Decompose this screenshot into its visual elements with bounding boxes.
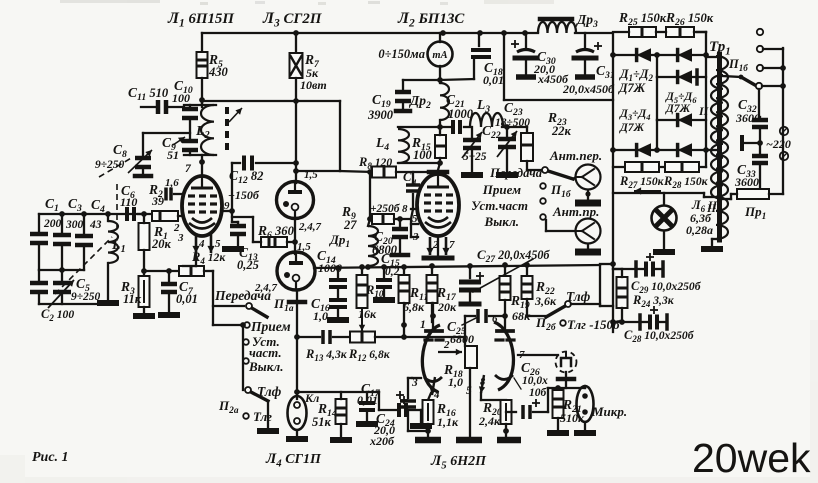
switch П2б arm [546, 305, 567, 317]
node d1 row [610, 52, 616, 58]
svg-text:0÷150ма: 0÷150ма [378, 47, 425, 61]
svg-text:10,0х: 10,0х [522, 375, 548, 387]
wire R10 stub [361, 267, 363, 275]
svg-text:C23: C23 [504, 100, 523, 118]
wire C20 stub [399, 219, 401, 226]
wire winding II bottom tap [706, 149, 716, 151]
wire top B+ bus [202, 32, 538, 34]
grid arrow R18 [438, 351, 462, 353]
wire C6 right [138, 213, 152, 215]
svg-text:0,01: 0,01 [176, 292, 198, 306]
wire to R8 [340, 171, 372, 172]
capacitor C12 [242, 156, 246, 171]
svg-text:39: 39 [151, 194, 164, 208]
bar jack [558, 377, 574, 382]
wire winding II top [706, 56, 716, 58]
wire C12 left [232, 162, 240, 164]
diode Д1 [637, 48, 651, 62]
wire Л3 bottom [294, 218, 296, 254]
svg-text:+250б: +250б [370, 203, 401, 215]
capacitor C15 [376, 278, 392, 282]
wire тлф right [571, 303, 600, 305]
svg-text:Д3÷Д4: Д3÷Д4 [619, 108, 651, 122]
svg-text:Л4 СГ1П: Л4 СГ1П [265, 451, 322, 469]
inductor Др1 [368, 226, 378, 266]
svg-text:Рис. 1: Рис. 1 [32, 450, 69, 465]
svg-text:Микр.: Микр. [591, 404, 627, 419]
wire C29 stub2 [636, 268, 643, 270]
wire ant пр stub [545, 220, 547, 231]
wire C20 bottom [399, 240, 401, 253]
wire Л2 cathode [437, 236, 439, 258]
resistor R18 [465, 346, 477, 368]
wire diode row2 [657, 76, 706, 78]
capacitor C2 [30, 281, 48, 286]
svg-text:20к: 20к [151, 237, 172, 251]
inductor Др2 [440, 83, 449, 120]
capacitor C29 electrolytic [644, 262, 648, 277]
switch common rail [242, 325, 244, 390]
svg-text:R12 6,8к: R12 6,8к [348, 347, 391, 363]
ground C17 [356, 421, 378, 427]
ground C19 [396, 109, 410, 114]
capacitor C13 [230, 224, 246, 229]
svg-text:C4: C4 [91, 197, 105, 215]
node R9 left [367, 216, 373, 222]
switch contact tap2 [757, 46, 763, 52]
wire R11 stub [403, 267, 405, 275]
wire anode row [398, 126, 450, 128]
svg-text:C11 510: C11 510 [128, 85, 169, 103]
node R22 rail [524, 262, 530, 268]
wire Сн bottom [412, 194, 414, 209]
node R5 bottom [199, 97, 205, 103]
ground Микр [574, 430, 596, 436]
wire fuse right [769, 193, 783, 195]
svg-text:C29 10,0х250б: C29 10,0х250б [631, 279, 702, 295]
wire R25-R26 [656, 31, 666, 33]
wire R13-R12 [333, 336, 350, 338]
cathode arrow 5 [210, 233, 213, 253]
capacitor C27 electrolytic [459, 280, 481, 285]
svg-text:2,4,7: 2,4,7 [298, 221, 322, 233]
wire C31 stub [584, 33, 586, 48]
node R10 rail [359, 264, 365, 270]
wire contact4 down [758, 89, 760, 117]
node R1 top [141, 211, 147, 217]
capacitor C4 [75, 234, 93, 239]
svg-text:9÷250: 9÷250 [71, 291, 101, 303]
svg-text:Пр1: Пр1 [744, 204, 766, 222]
wire tap bar [744, 142, 760, 144]
wire bus to R5 [201, 33, 203, 52]
svg-text:Д7Ж: Д7Ж [618, 81, 646, 95]
tube Л1 6П15П [182, 176, 222, 236]
wire Микр bottom [584, 422, 586, 430]
svg-text:П2а: П2а [218, 398, 239, 416]
wire R20 bottom [505, 424, 507, 436]
svg-text:R26 150к: R26 150к [665, 10, 714, 28]
svg-text:Л1 6П15П: Л1 6П15П [167, 10, 234, 30]
wire C9 bottom [189, 153, 191, 155]
svg-text:II: II [698, 104, 710, 118]
wire R23 top [526, 127, 528, 133]
resistor R21 [553, 390, 564, 418]
wire C1 bottom [38, 246, 40, 270]
wire C26 right [533, 411, 548, 413]
terminal bar C29 right [661, 262, 665, 276]
svg-text:C27 20,0х450б: C27 20,0х450б [477, 247, 550, 265]
wire row3-row4 [656, 120, 658, 150]
capacitor C22 variable [463, 138, 481, 143]
node R11 join [401, 334, 407, 340]
wire R2 to tube [178, 215, 183, 217]
node cross R7 [293, 98, 299, 104]
svg-text:R8 120: R8 120 [358, 155, 392, 171]
wire ant пр gnd [587, 244, 589, 249]
wire R15 top stub [439, 129, 441, 135]
resistor R16 [423, 400, 434, 424]
svg-text:9÷250: 9÷250 [95, 159, 125, 171]
pointer C27 [473, 259, 533, 292]
svg-text:20wek: 20wek [692, 435, 811, 481]
resistor R11 [399, 275, 410, 303]
wire C3 bottom [61, 247, 63, 270]
resistor R26 [666, 27, 694, 37]
switch contact прием [540, 183, 546, 189]
wire C3 stub [61, 214, 63, 232]
wire C18 stub [478, 33, 480, 46]
wire B+ feed vertical [503, 33, 505, 100]
svg-text:Др1: Др1 [329, 232, 350, 250]
wire Л4 bottom [296, 290, 298, 302]
ground C30 [516, 74, 536, 80]
wire R24 bottom [621, 308, 623, 322]
ground C13 [222, 246, 244, 252]
ground R20 [497, 437, 521, 444]
wire C24 right [409, 409, 421, 411]
ground R21 [547, 430, 569, 436]
svg-text:300: 300 [65, 219, 84, 231]
wire tap2 [763, 48, 783, 50]
capacitor C25 [476, 309, 480, 323]
wire mains rail [782, 48, 784, 194]
wire R19 bottom [504, 300, 506, 316]
wire screen corner down [339, 101, 341, 171]
capacitor C5 variable [53, 281, 71, 286]
switch П1б arm antenna [545, 170, 573, 179]
inductor Др3 [538, 22, 576, 33]
wire tap3 [763, 67, 783, 69]
wire прием tap [213, 324, 243, 326]
wire ant пер gnd [587, 190, 589, 201]
svg-text:5: 5 [215, 238, 221, 250]
svg-text:Тлг: Тлг [253, 409, 272, 424]
resistor R9 [372, 214, 394, 224]
svg-text:100: 100 [413, 148, 433, 162]
inductor L1 [108, 221, 118, 263]
wire C7 bottom [168, 295, 170, 312]
wire R14 bottom [340, 424, 342, 437]
wire anode Л3 tap [296, 170, 340, 172]
node C15 rail [381, 264, 387, 270]
antenna jack пер [576, 165, 601, 190]
svg-text:C3: C3 [68, 196, 82, 214]
svg-text:430: 430 [208, 65, 229, 79]
wire bottom rail2 [39, 303, 108, 305]
wire C15 bottom [383, 290, 385, 297]
diode Д2 [678, 48, 692, 62]
wire C22 bottom [471, 151, 473, 172]
resistor R7 [290, 53, 303, 78]
wire to top cap [438, 163, 440, 170]
lamp Л6 [652, 206, 677, 231]
node C28 [610, 319, 616, 325]
svg-text:16к: 16к [358, 307, 377, 321]
svg-text:20к: 20к [437, 300, 457, 314]
svg-text:3600: 3600 [734, 175, 759, 189]
wire C27 bottom [469, 293, 471, 302]
wire C11 right [169, 106, 184, 108]
svg-text:R25 150к: R25 150к [618, 10, 667, 28]
capacitor C26 ecap [521, 405, 525, 419]
capacitor C31 electrolytic [576, 50, 594, 53]
wire meter down [439, 66, 441, 80]
wire Др1 bottom [367, 266, 369, 268]
wire R27 row [613, 166, 706, 168]
wire R21 bottom [557, 418, 559, 430]
wire pin5 R20 [480, 393, 482, 400]
resistor R27 [625, 162, 659, 172]
wire R19 stub [504, 265, 506, 276]
wire C4 bottom [83, 248, 85, 270]
svg-text:510к: 510к [560, 411, 585, 425]
wire R1 top stub [143, 214, 145, 223]
wire C5 bottom [61, 295, 63, 304]
wire C1 stub [38, 214, 40, 231]
wire R5 to node [201, 78, 203, 107]
switch contact tap4 [756, 83, 762, 89]
svg-text:18÷500: 18÷500 [495, 117, 530, 129]
ground C15 [373, 297, 395, 303]
wire L1 bottom [107, 263, 109, 300]
capacitor C32 [752, 118, 768, 123]
svg-text:Прием: Прием [482, 182, 521, 197]
resistor R6 [261, 237, 287, 247]
wire pin9 connect [231, 212, 233, 214]
node C20 top [397, 216, 403, 222]
ground R16 [415, 437, 441, 444]
inductor L4 [398, 129, 409, 163]
svg-text:10б: 10б [529, 387, 548, 399]
resistor R17 [427, 275, 438, 303]
wire C30 bottom [525, 60, 527, 74]
svg-text:8: 8 [402, 203, 408, 215]
gang dashed diag2 [99, 157, 133, 177]
cathode arc left [424, 377, 442, 382]
wire R23 bottom [526, 161, 528, 170]
wire R7 down [295, 78, 297, 183]
diode Д6 [678, 113, 692, 127]
wire C22 stub [471, 127, 473, 137]
wire C28 row [613, 321, 640, 323]
gang dashed vertical [116, 184, 118, 228]
arrow C5 variable [48, 280, 74, 308]
wire winding I top [723, 76, 741, 77]
wire C29 row [613, 268, 636, 270]
node out [555, 385, 561, 391]
svg-text:III: III [706, 203, 721, 215]
wire C13 bottom [237, 237, 239, 246]
svg-text:43: 43 [89, 219, 102, 231]
wire R11 bottom [403, 303, 405, 337]
svg-text:~220: ~220 [766, 137, 791, 151]
wire C11 left stub [141, 106, 156, 108]
terminal bar C28 left [638, 315, 642, 329]
wire C26 left [506, 411, 516, 413]
svg-text:Прием: Прием [250, 319, 291, 334]
capacitor C17 [359, 401, 375, 405]
wire pin3 stub [410, 219, 412, 237]
wire R15 bottom stub [439, 158, 441, 163]
grid dash right [496, 338, 503, 341]
capacitor C19 [395, 90, 411, 95]
wire diode row3 [657, 119, 706, 121]
resistor R4 [179, 266, 204, 276]
wire C14-C16 [337, 290, 339, 297]
node junction R7 top [293, 30, 299, 36]
resistor R14 [336, 399, 347, 424]
capacitor C8 variable [135, 156, 151, 161]
wire cathode down [195, 252, 197, 266]
svg-text:7: 7 [185, 163, 192, 175]
wire C8 top [143, 132, 190, 134]
svg-text:4: 4 [198, 238, 205, 250]
wire meter to C19 [403, 79, 440, 81]
wire R9 right [394, 218, 411, 220]
svg-text:1,6: 1,6 [165, 177, 179, 189]
node C3 top [59, 211, 65, 217]
ground C24 [410, 423, 432, 429]
node кл row [294, 334, 300, 340]
wire rail corner [599, 265, 601, 306]
ground П2а [257, 428, 279, 434]
svg-text:3: 3 [412, 231, 419, 243]
wire R4 right [204, 270, 213, 272]
wire C2 stub [38, 270, 40, 280]
ground C22 [461, 172, 483, 178]
svg-text:110: 110 [120, 195, 137, 209]
svg-text:C2 100: C2 100 [41, 307, 74, 323]
cathode arrow 4 [195, 233, 198, 253]
capacitor C18 [471, 48, 491, 52]
svg-text:0,25: 0,25 [237, 258, 259, 272]
resistor R19 [500, 276, 511, 300]
node C14 rail [335, 265, 341, 271]
capacitor C21 [451, 120, 455, 134]
wire C24 wire [378, 392, 380, 410]
svg-text:Уст.част: Уст.част [471, 198, 528, 213]
resistor R5 [197, 52, 208, 78]
svg-text:Передача: Передача [214, 288, 271, 303]
jack Кл [288, 396, 307, 430]
node d4 row [610, 147, 616, 153]
node C4 top [81, 211, 87, 217]
capacitor C1 [30, 232, 48, 237]
phone jack dashed circle [556, 352, 577, 373]
wire передача tap [213, 305, 244, 307]
wire antenna input row [39, 213, 144, 215]
tube Л2 6П13С [417, 174, 459, 236]
gang dashed line [55, 237, 112, 294]
antenna jack пр [576, 219, 601, 244]
wire C21 to L3 [464, 126, 470, 128]
svg-text:1,5: 1,5 [297, 241, 311, 253]
svg-text:C12 82: C12 82 [229, 168, 264, 186]
capacitor C14 [329, 278, 347, 282]
wire tank bottom [184, 154, 216, 156]
wire C7 stub [168, 271, 170, 281]
wire R26 right [697, 31, 706, 33]
tube Л4 СГ1П [277, 252, 315, 290]
capacitor C9 variable [182, 139, 198, 144]
svg-text:3: 3 [177, 232, 184, 244]
wire Л4 down [296, 302, 298, 399]
node junction C30 top [522, 30, 528, 36]
node прием wire [240, 322, 246, 328]
wire R24 top [613, 268, 622, 270]
svg-text:22к: 22к [551, 124, 572, 138]
wire R18 bottom [469, 368, 471, 436]
svg-text:П1б: П1б [550, 182, 571, 200]
node mains mid [757, 140, 763, 146]
wire C23 stub [506, 127, 508, 136]
diode Д3 [637, 143, 651, 157]
wire R17 bottom [431, 303, 433, 322]
wire jack down [565, 379, 567, 388]
svg-text:L2: L2 [195, 124, 210, 141]
bar Л4 bottom [289, 300, 305, 305]
svg-text:11к: 11к [123, 292, 142, 306]
pin 9 wire [221, 210, 232, 212]
svg-text:3600: 3600 [735, 111, 760, 125]
node R17 rail [429, 263, 435, 269]
capacitor grid 1,6 [164, 188, 168, 201]
node junction C18 top [477, 30, 483, 36]
wire pin3 [411, 236, 418, 238]
wire R22 stub [526, 265, 528, 276]
resistor R20 [501, 400, 512, 424]
transformer winding II+III left [716, 56, 728, 239]
wire C10 mid [189, 105, 191, 109]
svg-text:51: 51 [167, 148, 179, 162]
ground R18 [456, 437, 482, 444]
capacitor C11 [156, 100, 161, 114]
node anode junction [293, 168, 299, 174]
wire Сн top [412, 172, 414, 185]
terminal mains 1 [780, 127, 788, 135]
resistor R22 [522, 276, 533, 299]
wire C13 stub [232, 221, 238, 223]
wire L3 to C23 node [502, 126, 527, 128]
svg-text:х20б: х20б [369, 434, 395, 448]
resistor R28 [665, 162, 699, 172]
wire R22 bottom [526, 299, 528, 316]
terminal mains 2 [780, 152, 788, 160]
ground R3 [133, 313, 155, 319]
svg-text:Ант.пер.: Ант.пер. [549, 148, 602, 163]
wire R17 anode1 [432, 303, 434, 331]
